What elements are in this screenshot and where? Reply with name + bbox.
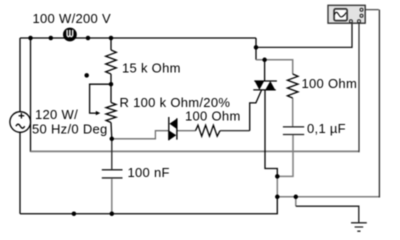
node dot top rail 4 at 15k xyxy=(109,36,114,41)
svg-text:100 Ohm: 100 Ohm xyxy=(302,76,358,91)
wire scope-B tap vertical xyxy=(30,38,32,152)
wire resistor to gate corner xyxy=(220,130,250,132)
wire triac gate staircase xyxy=(250,90,262,131)
wire bottom rail xyxy=(20,197,277,214)
wire triac column top xyxy=(255,38,257,60)
capacitor 0,1 uF xyxy=(283,127,304,135)
node dot 15k-pot junction xyxy=(109,82,114,87)
svg-text:50 Hz/0 Deg: 50 Hz/0 Deg xyxy=(32,122,108,137)
wire triac bottom lead xyxy=(265,90,277,176)
node dot top rail 1 xyxy=(28,36,33,41)
svg-text:100 W/200 V: 100 W/200 V xyxy=(33,11,111,26)
wire scope channel A2 top horizontal xyxy=(363,9,379,11)
triac Q1 xyxy=(253,60,277,90)
wire gray node C to node B2 xyxy=(276,176,278,196)
wire ground branch xyxy=(296,206,359,222)
resistor R1 15k xyxy=(106,38,117,84)
wire scope channel A horizontal xyxy=(256,23,352,48)
wire gray node B3 stub down xyxy=(295,197,297,206)
svg-text:0,1 µF: 0,1 µF xyxy=(307,121,346,136)
wire scope channel B vertical xyxy=(358,23,360,153)
ground xyxy=(351,223,367,231)
diac D1 xyxy=(169,117,177,140)
svg-text:120 W/: 120 W/ xyxy=(35,107,78,122)
wire gray resistor to cap xyxy=(292,98,294,126)
node dot triac top xyxy=(262,58,267,63)
wire diac to resistor xyxy=(177,130,196,132)
node dot bottom rail A xyxy=(72,212,77,217)
wire gray rail to scope channel B xyxy=(31,150,360,152)
wire gray cap bottom to node C xyxy=(277,135,293,176)
wire gray node B2 to node B3 xyxy=(277,196,296,198)
resistor 100 Ohm (gate) xyxy=(196,125,221,136)
svg-text:100 nF: 100 nF xyxy=(128,165,170,180)
svg-text:15 k Ohm: 15 k Ohm xyxy=(122,61,181,76)
svg-text:100 Ohm: 100 Ohm xyxy=(185,109,241,124)
wire left vertical lower (source bottom lead) xyxy=(19,132,21,214)
wire top rail xyxy=(20,37,256,39)
node dot floating xyxy=(84,73,89,78)
node dot channel A junction xyxy=(254,45,259,50)
node dot bottom rail B xyxy=(110,212,115,217)
potentiometer R body xyxy=(106,84,116,139)
wire left vertical upper (source top lead) xyxy=(19,38,21,112)
potentiometer R wiper wire and arrow xyxy=(90,84,111,115)
AC source V1 xyxy=(10,112,31,133)
node dot B3 xyxy=(294,195,299,200)
wire scope channel A2 vertical xyxy=(378,10,380,198)
wire gray jog to resistor column xyxy=(256,60,293,74)
wire 100nF cap top lead xyxy=(111,139,113,169)
node dot top rail 3 xyxy=(86,36,91,41)
lamp X1 xyxy=(63,28,77,42)
wire gray 100nF cap bottom lead xyxy=(111,179,113,214)
resistor 100 Ohm (snubber) xyxy=(287,74,298,98)
node dot B2 xyxy=(275,195,280,200)
oscilloscope XSC1 xyxy=(328,5,365,23)
wire gray node B3 to scope right terminal xyxy=(296,196,380,198)
node dot pot bottom xyxy=(110,137,115,142)
wire pot bottom to diac (gray) xyxy=(112,131,169,139)
capacitor 100 nF xyxy=(102,170,123,178)
node dot C triac-cap junction xyxy=(275,174,280,179)
node dot top rail 2 xyxy=(49,36,54,41)
